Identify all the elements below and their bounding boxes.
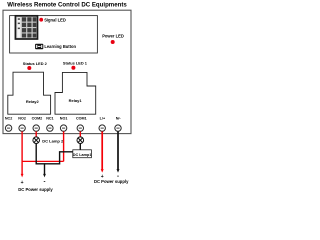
wire: lamp 2 return to left supply - — [36, 143, 44, 174]
svg-text:Status LED 2: Status LED 2 — [23, 61, 48, 66]
svg-text:Relay1: Relay1 — [69, 98, 83, 103]
wire: NO2 positive feed down to left supply + — [21, 131, 23, 174]
svg-text:Signal LED: Signal LED — [44, 17, 66, 22]
wire: L/+ input from right supply + — [101, 131, 103, 169]
DC lamp 1 boxed label — [73, 150, 92, 158]
wire: COM1 down to lamp 1 — [79, 131, 81, 137]
svg-text:N/-: N/- — [116, 117, 122, 121]
svg-text:COM1: COM1 — [76, 117, 87, 121]
screw terminal L/+ — [99, 125, 105, 131]
svg-text:Status LED 1: Status LED 1 — [63, 61, 88, 66]
wire: COM2 down to lamp 2 — [35, 131, 37, 137]
svg-text:Learning Button: Learning Button — [44, 44, 76, 49]
relay K2 outline — [8, 72, 51, 114]
svg-text:-: - — [44, 180, 46, 186]
screw terminal NO1 — [60, 125, 66, 131]
svg-text:Power LED: Power LED — [102, 33, 124, 38]
arrowhead on L/+ wire — [101, 169, 104, 173]
receiver module outer enclosure box — [3, 10, 131, 133]
screw terminal NC2 — [5, 125, 11, 131]
wire: N/- input from right supply - — [117, 131, 119, 169]
svg-text:L/+: L/+ — [100, 117, 105, 121]
svg-text:NO1: NO1 — [60, 117, 68, 121]
receiver RF board inner box — [10, 16, 98, 53]
svg-text:DC Lamp 2: DC Lamp 2 — [42, 139, 64, 144]
arrowhead on lamp 2 return wire — [43, 174, 46, 178]
screw terminal NC1 — [47, 125, 53, 131]
relay K1 outline — [55, 72, 96, 114]
arrowhead on NO2 wire — [21, 174, 24, 178]
DIP switch block S1 — [15, 16, 37, 39]
learning button SW1 — [35, 44, 43, 50]
status LED 2 indicator — [27, 66, 31, 70]
svg-text:Wireless Remote Control DC Equ: Wireless Remote Control DC Equipments — [7, 2, 127, 9]
signal LED indicator — [39, 18, 43, 22]
svg-text:DC Power supply: DC Power supply — [18, 187, 53, 192]
DC lamp 1 symbol — [77, 137, 84, 144]
wire: lamp 1 return joining lamp 2 return — [45, 143, 81, 164]
arrowhead on N/- wire — [117, 169, 120, 173]
svg-text:COM2: COM2 — [32, 117, 43, 121]
screw terminal N/- — [115, 125, 121, 131]
svg-text:NC1: NC1 — [46, 117, 53, 121]
screw terminal COM1 — [77, 125, 83, 131]
DC lamp 2 symbol — [33, 137, 40, 144]
status LED 1 indicator — [71, 66, 75, 70]
svg-text:NO2: NO2 — [18, 117, 26, 121]
svg-text:+: + — [21, 180, 24, 186]
wire: NO1 down to jumper rail — [63, 131, 65, 161]
svg-text:DC Power supply: DC Power supply — [94, 179, 129, 184]
power LED indicator — [111, 40, 115, 44]
svg-text:Relay2: Relay2 — [26, 99, 40, 104]
svg-text:NC2: NC2 — [5, 117, 12, 121]
wire: red jumper rail NO2 to NO1 — [22, 160, 64, 162]
screw terminal NO2 — [19, 125, 25, 131]
screw terminal COM2 — [33, 125, 39, 131]
svg-text:DC Lamp1: DC Lamp1 — [73, 153, 92, 157]
